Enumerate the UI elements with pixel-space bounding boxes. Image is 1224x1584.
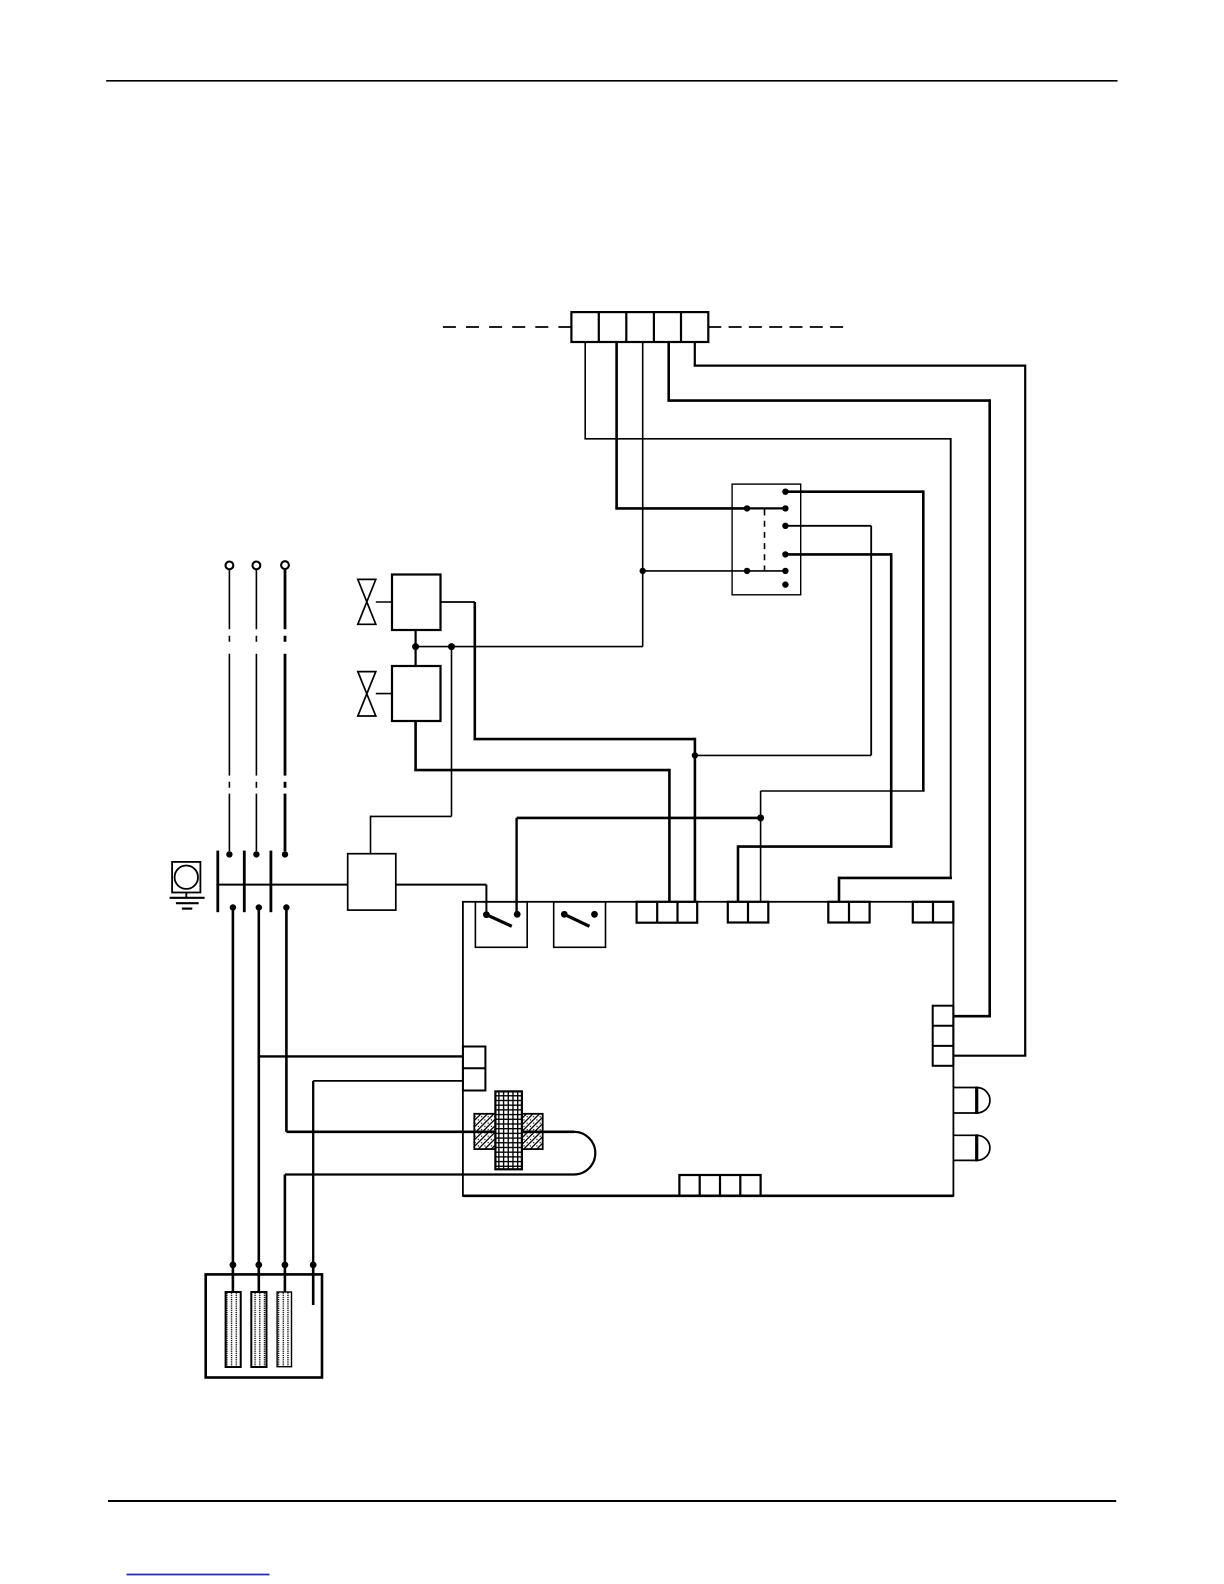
phase line L1 — [228, 569, 230, 851]
meter M1 square — [172, 862, 200, 893]
wire feed branch run to fuse — [371, 815, 452, 817]
switch S1 left contact — [483, 911, 490, 918]
wire node to switch S1 right contact — [517, 817, 761, 820]
wire X1.1 stub into cell C1 — [838, 877, 841, 902]
wire X1.3 down — [642, 342, 644, 647]
switch Q1 bottom contact 1 — [230, 904, 236, 910]
heater E1 lead 2 — [257, 1265, 260, 1292]
dashed bus line left of X1 — [443, 326, 572, 328]
wire Y2 bottom drop — [414, 721, 417, 770]
wire X1.1 right drop — [950, 438, 952, 878]
heater E1 terminal dot 1 — [230, 1262, 237, 1269]
top page rule — [106, 80, 1117, 82]
switch Q1 top contact 3 — [282, 851, 288, 857]
junction Y1/K1 pin3 — [692, 752, 698, 758]
wire K1 pin1 down to junction — [760, 791, 762, 818]
switch Q1 bottom contact 3 — [283, 904, 289, 910]
wire Y1 right — [441, 601, 475, 603]
igniter feed line through bar — [474, 1131, 542, 1134]
indicator lamp H2 — [953, 1134, 990, 1161]
board left terminal group (2 cells) — [463, 1047, 486, 1091]
wire K1 pin4 drop — [890, 553, 893, 847]
bottom page rule — [108, 1500, 1116, 1502]
switch Q1 bottom contact 2 — [256, 904, 262, 910]
igniter return run — [285, 1173, 574, 1175]
relay K1 right pin 5 — [782, 568, 788, 574]
wire Y1 symbol to coil box — [376, 601, 392, 603]
phase line L2 — [255, 569, 257, 851]
relay K1 dashed actuator link — [764, 510, 766, 571]
valve coil box Y1 — [392, 575, 441, 631]
junction node above board — [757, 814, 764, 821]
wire K1 pin3 horizontal — [785, 525, 871, 527]
relay K1 outline — [732, 484, 801, 595]
wire X1.4 into right cell R1 — [953, 1015, 991, 1018]
wire Y1 run right — [474, 738, 695, 741]
phase line L3 — [284, 569, 287, 851]
wire Y2 run right — [414, 769, 669, 772]
igniter horizontal hatched bar — [474, 1114, 542, 1149]
board terminal group B (2 cells) — [728, 902, 769, 923]
wire fuse box to board switch S1 — [396, 884, 487, 886]
switch S2 lever — [564, 914, 589, 926]
wire Y1 drop — [473, 602, 476, 739]
dashed bus line right of X1 — [708, 326, 843, 328]
valve coil box Y2 — [392, 666, 441, 721]
heater E1 lead 3 — [284, 1265, 287, 1292]
igniter vertical grid bar — [495, 1091, 522, 1169]
relay K1 right pin 1 — [782, 489, 788, 495]
wire K1 pin1 return run — [761, 790, 925, 792]
heater box E1 — [206, 1274, 322, 1377]
wire X1.5 right drop — [1024, 365, 1026, 1056]
meter M1 circle — [175, 866, 198, 889]
wire linking Y1 coil to Y2 coil — [415, 630, 417, 666]
footer link underline — [127, 1574, 270, 1576]
junction X1.3/relay branch — [640, 568, 646, 574]
switch S1 right contact — [514, 911, 521, 918]
gas valve symbol Y1 — [358, 579, 376, 624]
control board A1 bottom edge — [463, 1195, 954, 1198]
wire Y2 symbol to coil box — [376, 693, 392, 695]
board terminal group C (2 cells) — [828, 902, 869, 923]
relay K1 right pin 4 — [782, 551, 788, 557]
wire pole2 to heater E1 — [257, 908, 260, 1265]
junction X1.3 run / feed branch — [448, 643, 455, 650]
wire fuse box top lead — [370, 816, 372, 854]
relay K1 right pin 2 — [782, 505, 788, 511]
wire K1 pin1 drop — [922, 490, 925, 791]
wire X1.5 down — [694, 342, 696, 366]
wire X1.2 to relay K1 left pin — [615, 507, 747, 510]
board bottom terminal group (4 cells) — [679, 1175, 760, 1196]
indicator lamp H1 — [953, 1087, 990, 1115]
switch S1 lever — [486, 915, 511, 927]
relay K1 internal contact link bottom — [747, 570, 785, 572]
wire K1 pin4 return run — [738, 845, 893, 848]
wire X1.5 into right cell R3 — [953, 1055, 1026, 1057]
relay K1 left pin b — [744, 568, 750, 574]
wire X1.5 horizontal run — [694, 365, 1025, 367]
board terminal group D (2 cells) — [913, 902, 954, 923]
wire K1 pin1 horizontal — [785, 490, 923, 493]
wire X1.1 horizontal run — [584, 438, 950, 440]
switch S1 box — [475, 902, 527, 948]
heater E1 terminal dot 2 — [255, 1262, 262, 1269]
switch S2 left contact — [561, 911, 568, 918]
board right terminal group (3 cells) — [933, 1006, 954, 1066]
neutral drop to heater — [312, 1081, 314, 1265]
fuse box F1 — [348, 854, 396, 910]
switch Q1 blade pole 2 — [243, 851, 246, 913]
wire X1.3 branch to relay K1 lower left pin — [643, 570, 747, 572]
wire X1.1 down — [584, 342, 586, 439]
heater element bar 1 — [226, 1292, 241, 1367]
wire X1.4 right drop — [988, 399, 991, 1016]
switch Q1 blade pole 3 — [269, 851, 272, 913]
switch Q1 top contact 2 — [253, 851, 259, 857]
ground symbol — [170, 893, 205, 909]
junction valve link / X1.3 run — [412, 643, 419, 650]
switch S2 box — [554, 902, 606, 948]
wire X1.4 down — [667, 342, 670, 401]
heater element bar 3 — [277, 1292, 291, 1367]
igniter loop arc — [574, 1132, 595, 1175]
wire X1.4 horizontal run — [667, 399, 989, 402]
supply circle L2 — [253, 562, 261, 570]
wire X1.1 return run to board — [839, 877, 952, 880]
control board A1 outline — [463, 902, 954, 1196]
wire pole3 to igniter — [286, 1131, 574, 1134]
wire X1.3 run to valve node — [416, 646, 643, 648]
relay K1 right pin 3 — [782, 523, 788, 529]
supply circle L1 — [226, 562, 234, 570]
wire pole3 down — [285, 908, 288, 1132]
relay K1 right pin 6 — [782, 581, 788, 587]
heater E1 lead 4 — [312, 1265, 315, 1305]
wire board cell L2 to neutral drop — [313, 1080, 463, 1082]
wire Y2 down into cell A2 — [668, 769, 671, 902]
switch S2 right contact — [591, 911, 598, 918]
wire pole1 to heater E1 — [232, 908, 235, 1265]
relay K1 left pin a — [744, 505, 750, 511]
wire drop to switch S1 right contact — [515, 818, 517, 914]
wire K1 pin4 horizontal — [785, 553, 891, 556]
igniter return drop to heater — [284, 1175, 287, 1265]
heater E1 lead 1 — [232, 1265, 235, 1292]
heater E1 terminal dot 4 — [310, 1262, 317, 1269]
switch Q1 top contact 1 — [226, 851, 232, 857]
gas valve symbol Y2 — [358, 672, 376, 716]
wire K1 pin3 drop — [870, 526, 872, 756]
wire X1.2 down — [615, 342, 618, 508]
wire node down into cell B2 — [760, 818, 762, 902]
wire drop into switch S1 left contact — [485, 885, 487, 915]
switch Q1 blade pole 1 — [216, 851, 219, 913]
wire Y1 down into cell A3 — [694, 738, 697, 902]
heater element bar 2 — [251, 1292, 266, 1367]
terminal block X1 (5 cells) — [571, 312, 708, 342]
wire Q1 bus to fuse box — [216, 884, 347, 886]
wire K1 pin3 run to valve node — [695, 754, 871, 756]
supply circle L3 — [281, 561, 289, 569]
heater E1 terminal dot 3 — [282, 1262, 289, 1269]
board terminal group A (3 cells) — [637, 902, 698, 923]
wire feed branch drop — [451, 647, 453, 817]
wire K1 pin4 stub into cell B1 — [737, 845, 740, 902]
relay K1 internal contact link top — [747, 507, 785, 509]
wire pole2 branch to board cell L1 — [259, 1055, 463, 1057]
